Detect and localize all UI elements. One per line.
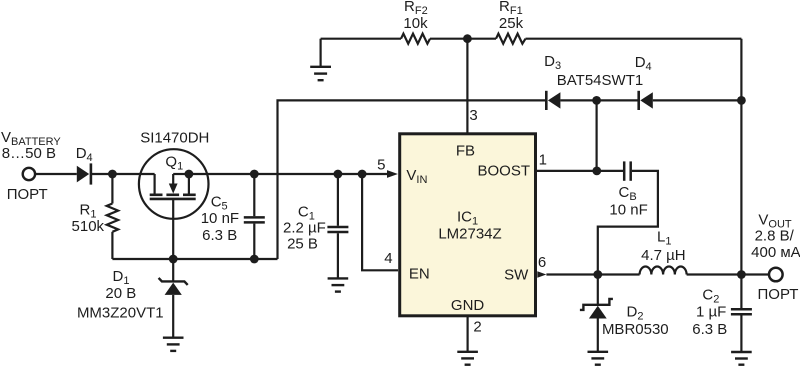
capacitor C2 [731, 275, 752, 353]
svg-text:25k: 25k [499, 15, 524, 32]
wire: FB vertical to pin 3 [466, 39, 468, 133]
wire: input to D4 [35, 173, 77, 175]
wire: L1 to output node [687, 273, 742, 275]
svg-text:D2: D2 [627, 303, 644, 322]
svg-text:1: 1 [539, 151, 547, 168]
ground (below C2) [731, 352, 752, 365]
node: C5 bottom [250, 255, 259, 264]
transistor Q1 (SI1470DH p-MOSFET) [139, 149, 209, 259]
svg-text:6.3 В: 6.3 В [202, 227, 237, 244]
resistor RF1 [496, 34, 526, 44]
svg-text:GND: GND [451, 297, 485, 314]
node: gate node at D1 [169, 255, 178, 264]
zener D1 (MM3Z20VT1) [159, 259, 188, 338]
ground (top left, RF2) [310, 39, 331, 80]
svg-text:6: 6 [538, 254, 546, 271]
terminal: battery input port [23, 168, 35, 180]
wire: Q1 source to VIN arrow [189, 173, 388, 175]
wire: BOOST pin 1 to CB [537, 170, 624, 172]
node: C5 top [250, 170, 259, 179]
node: BOOST junction [592, 167, 601, 176]
capacitor C5 [244, 174, 265, 259]
svg-text:10 nF: 10 nF [609, 202, 647, 219]
svg-text:LM2734Z: LM2734Z [438, 225, 501, 242]
svg-text:10k: 10k [403, 15, 428, 32]
node: SW/D2/L1 junction [593, 270, 602, 279]
pin 5 arrow into VIN [387, 170, 398, 178]
node: D3/D4 junction [592, 96, 601, 105]
svg-text:FB: FB [456, 143, 475, 160]
svg-text:D4: D4 [76, 145, 93, 164]
node: output rail / D4 junction [737, 96, 746, 105]
diode D4 (BAT54SWT1) [639, 91, 653, 110]
svg-text:ПОРТ: ПОРТ [758, 286, 799, 303]
wire: bottom gate node line [112, 258, 277, 260]
svg-text:25 В: 25 В [287, 235, 318, 252]
wire: top feedback rail [321, 38, 401, 40]
ground (below D1) [163, 338, 184, 351]
svg-text:Q1: Q1 [165, 153, 183, 172]
svg-text:2.2 µF: 2.2 µF [283, 219, 326, 236]
svg-text:EN: EN [409, 266, 430, 283]
svg-text:400 мА: 400 мА [751, 244, 800, 261]
pin 6 arrow out of SW [537, 271, 546, 278]
wire: charge-pump line from gate node to D3 [278, 100, 546, 259]
node: C1 top [334, 170, 343, 179]
terminal: output port [769, 268, 783, 282]
svg-text:D4: D4 [635, 54, 652, 73]
wire: SW to L1 [546, 273, 639, 275]
svg-text:BAT54SWT1: BAT54SWT1 [557, 72, 643, 89]
svg-text:6.3 В: 6.3 В [692, 321, 727, 338]
schottky diode D2 (MBR0530) [580, 275, 613, 352]
svg-text:MBR0530: MBR0530 [602, 321, 669, 338]
svg-text:L1: L1 [657, 228, 671, 247]
resistor R1 [107, 174, 118, 259]
diode D3 [546, 91, 560, 110]
svg-text:2.8 В/: 2.8 В/ [755, 228, 795, 245]
wire: EN branch to pin 4 [362, 174, 398, 270]
svg-text:8…50 В: 8…50 В [2, 145, 56, 162]
resistor RF2 [401, 34, 430, 44]
svg-text:SW: SW [504, 266, 529, 283]
ground (below IC GND) [457, 352, 478, 365]
svg-text:2: 2 [473, 319, 481, 336]
wire: right output rail vertical [740, 39, 742, 275]
wire: GND pin 2 [467, 316, 469, 352]
wire: D4 to Q1 drain [91, 173, 155, 175]
svg-text:1 µF: 1 µF [696, 304, 726, 321]
svg-text:5: 5 [377, 157, 385, 174]
node: EN branch [358, 170, 367, 179]
svg-text:10 nF: 10 nF [201, 210, 239, 227]
svg-text:MM3Z20VT1: MM3Z20VT1 [77, 305, 164, 322]
diode D4 (input) [77, 163, 91, 184]
IC IC1 LM2734Z body [400, 134, 536, 316]
capacitor CB [624, 161, 631, 180]
inductor L1 [640, 267, 687, 275]
wire: junction down to BOOST line [595, 100, 597, 170]
svg-text:CB: CB [619, 184, 637, 203]
wire: CB to SW node [598, 171, 658, 275]
wire: D3 to junction [560, 99, 596, 101]
svg-text:3: 3 [469, 107, 477, 124]
svg-text:ПОРТ: ПОРТ [7, 186, 48, 203]
capacitor C1 [327, 174, 348, 278]
node: R1 top junction [108, 170, 117, 179]
wire: D4 to output rail [653, 99, 742, 101]
svg-text:4: 4 [384, 250, 392, 267]
svg-text:BOOST: BOOST [477, 163, 530, 180]
ground (below C1) [328, 278, 349, 291]
node: output node [737, 270, 746, 279]
svg-text:D3: D3 [544, 53, 561, 72]
ground (below D2) [588, 352, 609, 365]
svg-text:20 В: 20 В [105, 285, 136, 302]
svg-text:510k: 510k [72, 218, 105, 235]
svg-text:4.7 µH: 4.7 µH [641, 247, 686, 264]
node: FB divider junction [463, 34, 472, 43]
wire: junction to D4 [597, 99, 639, 101]
svg-text:SI1470DH: SI1470DH [140, 130, 209, 147]
wire: output node to port terminal [741, 273, 769, 275]
